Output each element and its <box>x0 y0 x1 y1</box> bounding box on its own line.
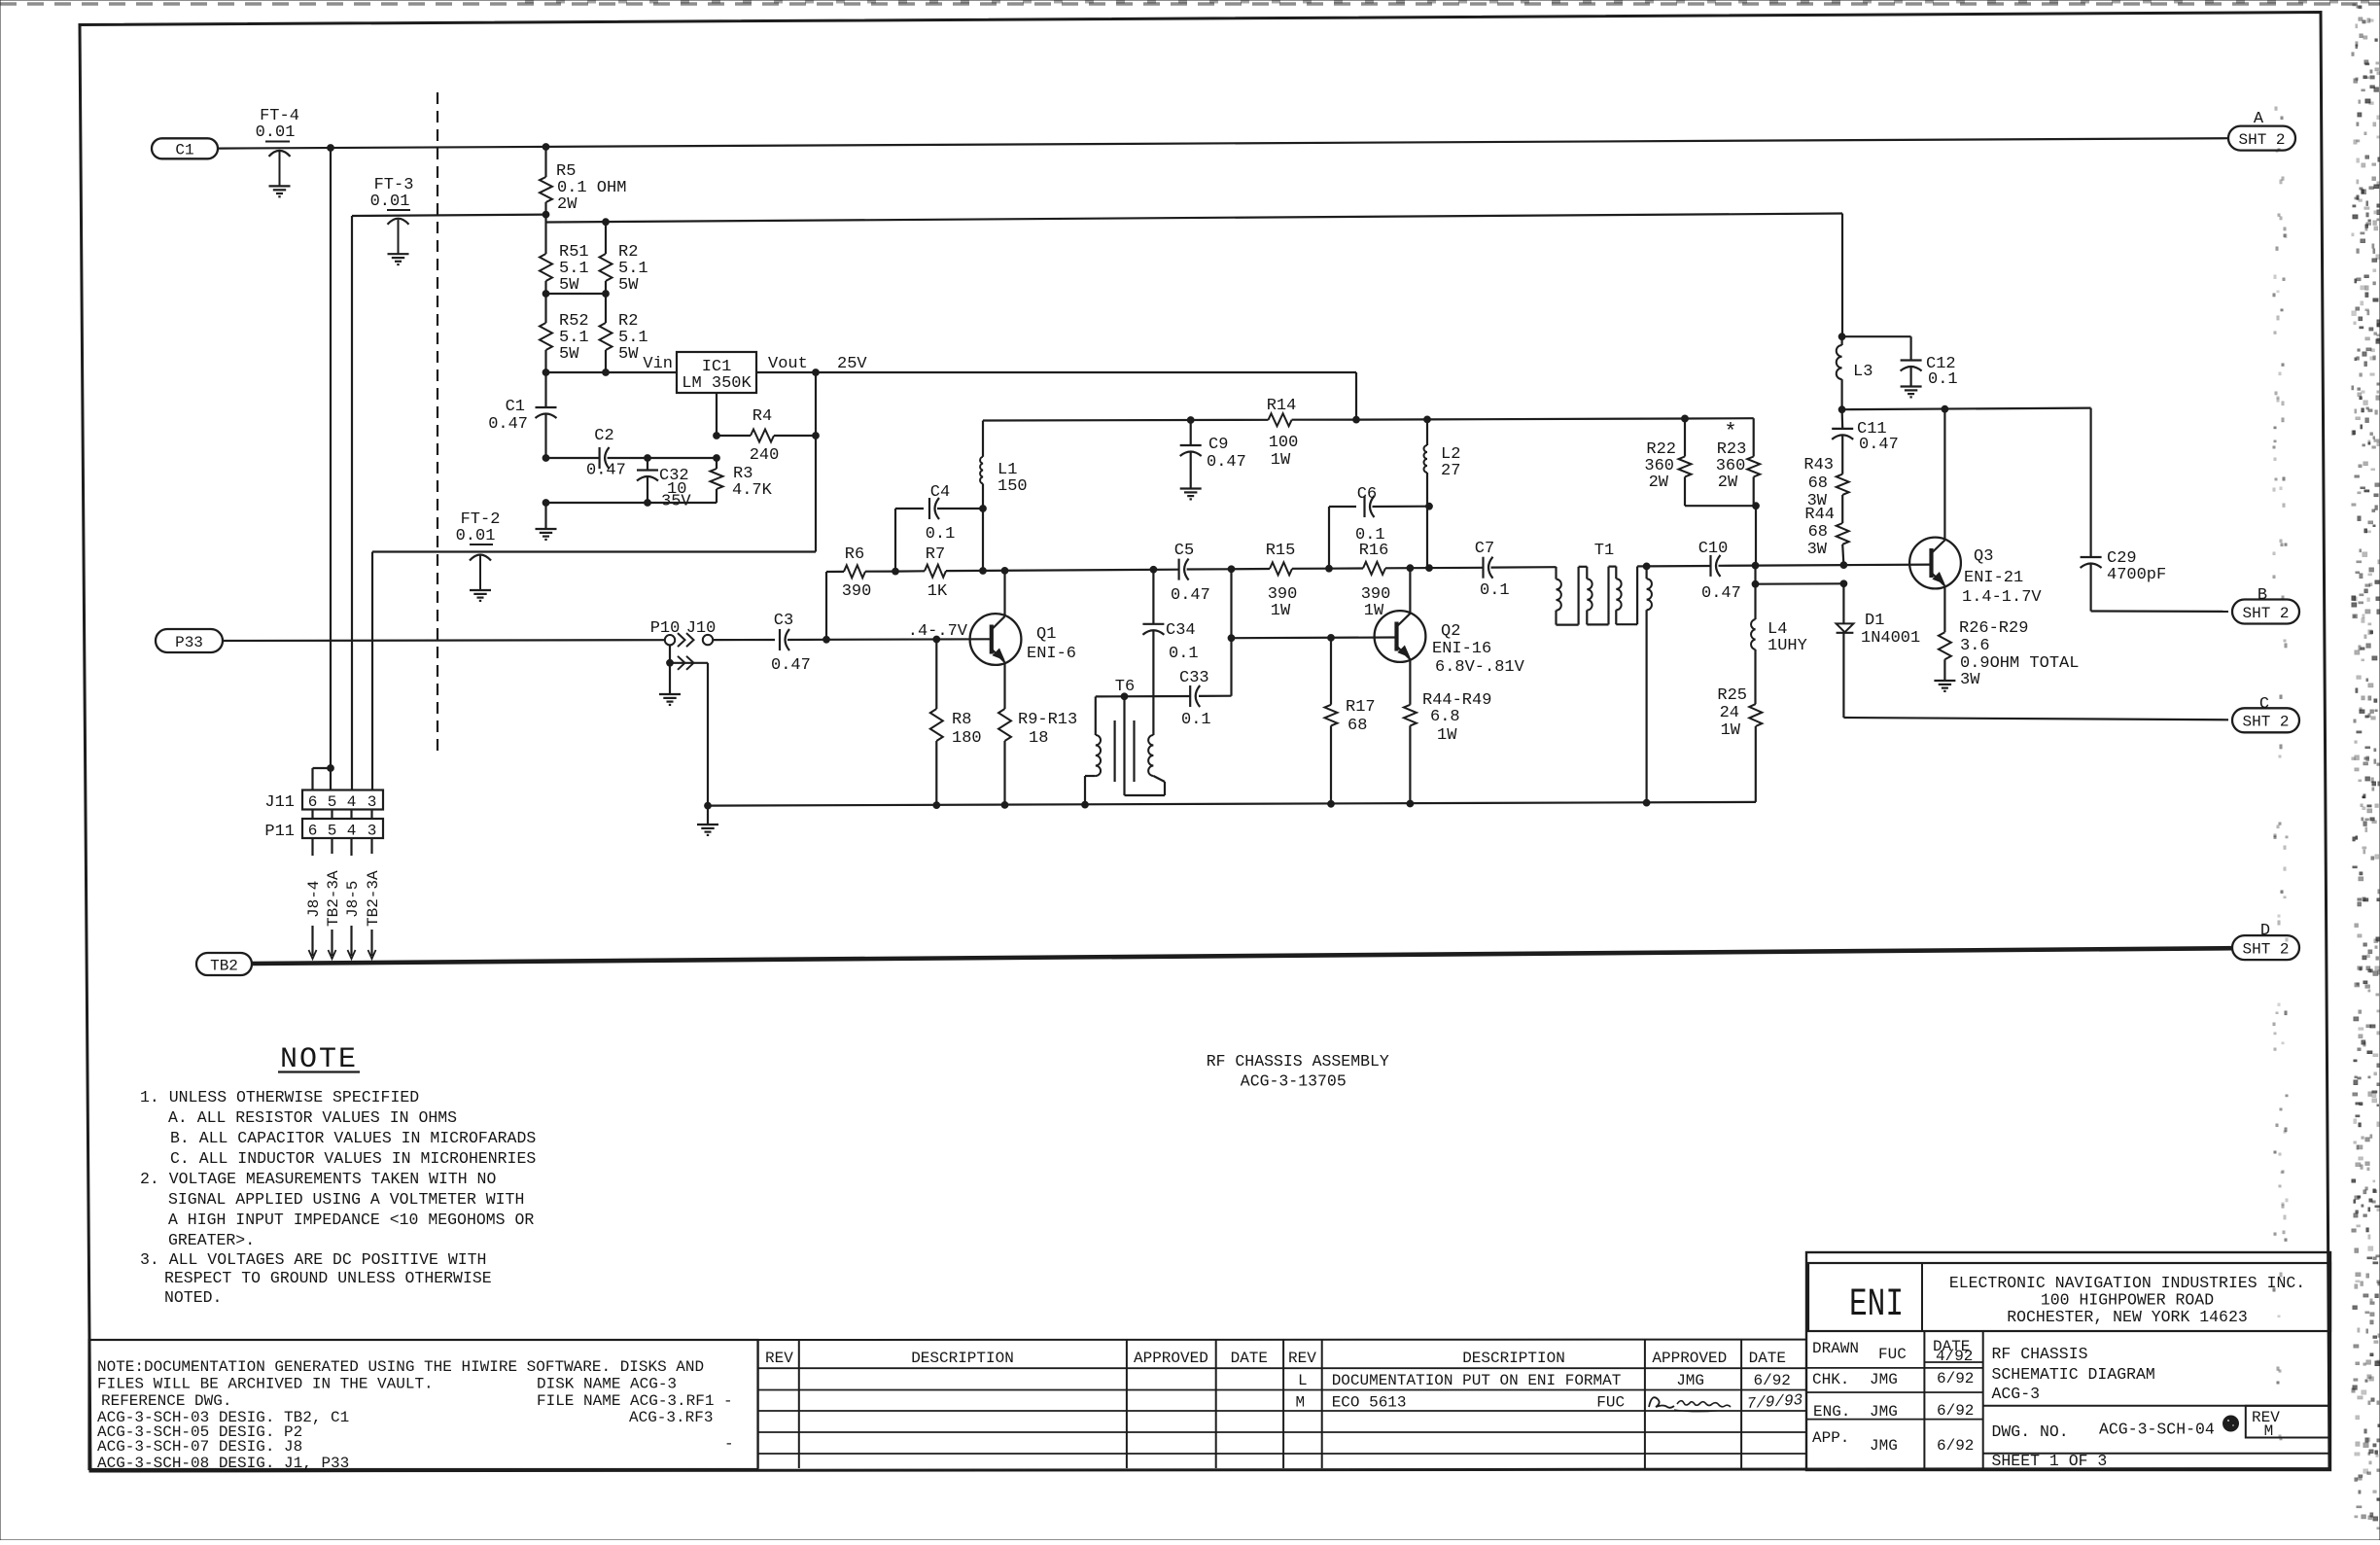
svg-text:6: 6 <box>308 793 318 811</box>
svg-text:P10: P10 <box>650 619 681 638</box>
svg-text:25V: 25V <box>837 355 867 373</box>
svg-text:ACG-3: ACG-3 <box>1992 1385 2041 1403</box>
svg-text:ELECTRONIC NAVIGATION INDUSTRI: ELECTRONIC NAVIGATION INDUSTRIES INC. <box>1949 1274 2305 1292</box>
svg-text:SHT 2: SHT 2 <box>2242 714 2289 731</box>
wire L4/D1 link <box>1752 566 1847 619</box>
wire to sheet B <box>2091 610 2228 613</box>
svg-text:ACG-3.RF3: ACG-3.RF3 <box>629 1409 713 1426</box>
svg-text:FUC: FUC <box>1878 1346 1907 1363</box>
resistor R26-R29 <box>1939 619 2080 689</box>
resistor R4 <box>714 372 820 465</box>
svg-text:0.1: 0.1 <box>926 525 956 544</box>
svg-text:L3: L3 <box>1853 363 1872 381</box>
transformer T1 <box>1557 542 1652 803</box>
svg-text:1W: 1W <box>1271 451 1291 470</box>
svg-text:C10: C10 <box>1698 540 1729 558</box>
svg-text:-: - <box>724 1435 734 1453</box>
svg-text:0.1: 0.1 <box>1181 711 1211 729</box>
resistor R5 <box>540 147 626 218</box>
resistor R8 <box>930 640 982 806</box>
svg-text:0.01: 0.01 <box>370 193 410 211</box>
svg-text:150: 150 <box>997 477 1028 496</box>
svg-text:C33: C33 <box>1179 669 1209 687</box>
svg-text:.4-.7V: .4-.7V <box>908 622 968 641</box>
svg-text:Q3: Q3 <box>1974 547 1993 566</box>
wire L3 bottom line <box>1842 405 2091 556</box>
svg-text:5W: 5W <box>559 345 579 364</box>
wire J10 shield to rail <box>707 663 709 806</box>
ground (rail) <box>697 825 718 835</box>
wire Q3 base <box>1843 563 1931 566</box>
svg-text:JMG: JMG <box>1870 1371 1898 1388</box>
svg-text:6/92: 6/92 <box>1937 1402 1974 1420</box>
wire Vout 25V node <box>756 355 1359 423</box>
connector C1 <box>152 138 218 158</box>
resistor R3 <box>711 458 773 503</box>
svg-text:C4: C4 <box>930 483 950 502</box>
svg-text:5W: 5W <box>618 345 639 364</box>
svg-text:Q1: Q1 <box>1036 625 1056 644</box>
sheet connector C <box>2232 695 2299 732</box>
svg-text:D1: D1 <box>1865 612 1884 630</box>
capacitor C6 <box>1329 485 1432 569</box>
svg-text:1.4-1.7V: 1.4-1.7V <box>1962 588 2042 607</box>
wire emitter ground rail <box>705 799 1756 825</box>
svg-text:0.1: 0.1 <box>1480 581 1510 600</box>
svg-text:1W: 1W <box>1271 602 1291 620</box>
svg-text:R6: R6 <box>845 545 864 564</box>
connector P33 <box>156 629 223 652</box>
svg-text:B. ALL CAPACITOR VALUES IN MIC: B. ALL CAPACITOR VALUES IN MICROFARADS <box>170 1129 536 1147</box>
wire ladder mid link <box>542 291 609 298</box>
svg-text:A: A <box>2254 110 2264 128</box>
svg-text:ACG-3-SCH-07 DESIG. J8: ACG-3-SCH-07 DESIG. J8 <box>97 1438 302 1456</box>
svg-text:6/92: 6/92 <box>1937 1437 1974 1455</box>
svg-text:DISK NAME ACG-3: DISK NAME ACG-3 <box>537 1376 677 1393</box>
inductor L3 <box>1837 336 1873 412</box>
svg-text:18: 18 <box>1029 729 1048 748</box>
svg-text:DOCUMENTATION PUT ON ENI FORMA: DOCUMENTATION PUT ON ENI FORMAT <box>1332 1372 1622 1389</box>
wire TB2 bus (thick) <box>252 948 2232 964</box>
dashed partition line <box>437 92 438 754</box>
svg-text:J8-4: J8-4 <box>305 881 323 918</box>
capacitor C3 <box>771 612 826 675</box>
svg-text:4/92: 4/92 <box>1936 1348 1973 1365</box>
svg-text:JMG: JMG <box>1676 1372 1704 1389</box>
capacitor C11 <box>1832 409 1899 474</box>
resistor R44-R49 <box>1404 691 1492 804</box>
svg-text:5W: 5W <box>559 276 579 295</box>
svg-text:A. ALL RESISTOR VALUES IN OHMS: A. ALL RESISTOR VALUES IN OHMS <box>168 1108 457 1127</box>
svg-text:REFERENCE DWG.: REFERENCE DWG. <box>101 1392 231 1410</box>
svg-text:3W: 3W <box>1807 541 1828 559</box>
resistor R43 <box>1803 456 1848 510</box>
svg-text:240: 240 <box>750 446 780 465</box>
feedthrough capacitor FT-3 <box>370 176 414 264</box>
svg-text:C1: C1 <box>506 398 525 416</box>
svg-text:3: 3 <box>367 823 377 840</box>
svg-text:APP.: APP. <box>1812 1429 1849 1447</box>
wire L3 top node <box>1842 335 1911 337</box>
wire main supply bus (to L3) <box>546 214 1846 340</box>
svg-text:APPROVED: APPROVED <box>1652 1350 1727 1367</box>
svg-text:DWG. NO.: DWG. NO. <box>1992 1422 2069 1441</box>
svg-text:C5: C5 <box>1174 542 1194 560</box>
svg-text:ENI-6: ENI-6 <box>1027 645 1076 663</box>
transistor Q1 <box>970 571 1076 709</box>
svg-text:R8: R8 <box>952 711 971 729</box>
inductor L2 <box>1424 419 1461 568</box>
svg-text:2W: 2W <box>557 195 577 214</box>
svg-text:C. ALL INDUCTOR VALUES IN MICR: C. ALL INDUCTOR VALUES IN MICROHENRIES <box>170 1149 536 1168</box>
connector J11 <box>264 790 383 813</box>
wire bus A <box>218 138 2228 151</box>
ground (regulator) <box>536 529 557 540</box>
svg-text:5: 5 <box>328 793 337 811</box>
svg-text:R26-R29: R26-R29 <box>1959 619 2028 638</box>
regulator IC1 LM350K <box>677 352 756 393</box>
svg-text:0.47: 0.47 <box>488 415 528 434</box>
svg-text:ACG-3-SCH-04: ACG-3-SCH-04 <box>2099 1421 2215 1439</box>
svg-text:NOTED.: NOTED. <box>164 1288 222 1307</box>
wire FT-3 bus <box>352 215 546 790</box>
svg-text:RESPECT TO GROUND UNLESS OTHER: RESPECT TO GROUND UNLESS OTHERWISE <box>164 1269 492 1287</box>
resistor R22 <box>1644 415 1759 509</box>
resistor R23 <box>1716 420 1761 506</box>
wire C1-bus to J11 pins 5/6 <box>313 148 334 790</box>
svg-text:4700pF: 4700pF <box>2107 566 2166 584</box>
svg-text:RF CHASSIS: RF CHASSIS <box>1992 1345 2088 1363</box>
svg-text:P33: P33 <box>175 634 203 651</box>
svg-text:0.01: 0.01 <box>456 527 496 545</box>
sheet connector B <box>2232 586 2299 624</box>
inductor L4 <box>1751 619 1807 704</box>
svg-text:DATE: DATE <box>1231 1350 1268 1367</box>
svg-text:C6: C6 <box>1357 485 1377 504</box>
capacitor C10 <box>1698 540 1756 603</box>
svg-text:6.8V-.81V: 6.8V-.81V <box>1435 658 1525 677</box>
wire P11 pin4 to TB2 + label J8-5 <box>344 838 362 959</box>
revision history table <box>724 1340 1806 1468</box>
wire Vin node <box>542 355 677 375</box>
svg-text:FILE NAME ACG-3.RF1 -: FILE NAME ACG-3.RF1 - <box>537 1392 733 1410</box>
capacitor C9 <box>1180 420 1246 489</box>
svg-text:4.7K: 4.7K <box>732 481 773 500</box>
capacitor C7 <box>1475 540 1557 600</box>
svg-text:C1: C1 <box>175 142 193 159</box>
svg-text:JMG: JMG <box>1870 1437 1898 1455</box>
wire J10 to C3 <box>713 639 775 641</box>
svg-text:1W: 1W <box>1721 721 1741 740</box>
documentation note box <box>89 1340 758 1472</box>
svg-text:0.47: 0.47 <box>771 656 811 675</box>
svg-text:RF CHASSIS ASSEMBLY: RF CHASSIS ASSEMBLY <box>1207 1052 1389 1071</box>
svg-text:4: 4 <box>347 823 357 840</box>
transformer T6 <box>1085 678 1165 805</box>
resistor R2 (lower) <box>600 294 648 372</box>
resistor R51 <box>540 223 589 296</box>
svg-text:J10: J10 <box>686 619 717 638</box>
svg-text:DATE: DATE <box>1749 1350 1786 1367</box>
svg-text:GREATER>.: GREATER>. <box>168 1231 255 1249</box>
svg-text:0.47: 0.47 <box>1207 453 1246 472</box>
svg-text:C2: C2 <box>594 427 613 445</box>
svg-text:2W: 2W <box>1649 474 1669 492</box>
svg-text:6/92: 6/92 <box>1754 1372 1791 1389</box>
svg-text:1. UNLESS OTHERWISE SPECIFIED: 1. UNLESS OTHERWISE SPECIFIED <box>140 1088 419 1106</box>
svg-text:68: 68 <box>1347 717 1367 735</box>
svg-text:0.47: 0.47 <box>586 462 626 480</box>
svg-text:R17: R17 <box>1346 698 1376 717</box>
svg-text:LM 350K: LM 350K <box>682 374 752 393</box>
svg-text:3W: 3W <box>1960 671 1980 689</box>
svg-text:C9: C9 <box>1208 436 1228 454</box>
resistor R14 <box>1267 397 1299 470</box>
svg-text:24: 24 <box>1720 704 1739 722</box>
svg-text:4: 4 <box>347 793 357 811</box>
svg-text:Q2: Q2 <box>1441 622 1460 641</box>
svg-text:J11: J11 <box>264 793 295 812</box>
svg-text:ENI-16: ENI-16 <box>1432 640 1491 658</box>
capacitor C1 (0.47) <box>488 372 556 458</box>
capacitor C32 <box>637 458 691 511</box>
svg-text:TB2-3A: TB2-3A <box>325 870 342 927</box>
connector P11 <box>264 819 383 841</box>
resistor R25 <box>1717 686 1762 802</box>
resistor R2 (upper) <box>600 222 648 295</box>
resistor R6 <box>826 545 895 640</box>
wire Q1 base node <box>823 622 992 643</box>
svg-text:M: M <box>2264 1422 2274 1440</box>
svg-text:R14: R14 <box>1267 397 1297 415</box>
svg-text:FUC: FUC <box>1596 1394 1625 1412</box>
svg-text:R15: R15 <box>1266 542 1296 560</box>
svg-text:B: B <box>2257 586 2267 605</box>
caption RF CHASSIS ASSEMBLY <box>1207 1052 1389 1091</box>
svg-text:T6: T6 <box>1115 678 1135 696</box>
resistor R17 <box>1325 638 1376 804</box>
wire L1 feed bus <box>983 415 1754 456</box>
svg-text:APPROVED: APPROVED <box>1134 1350 1208 1367</box>
svg-text:ROCHESTER, NEW YORK 14623: ROCHESTER, NEW YORK 14623 <box>2007 1308 2248 1326</box>
svg-text:C: C <box>2259 695 2269 714</box>
connector TB2 <box>196 953 252 975</box>
svg-text:ECO 5613: ECO 5613 <box>1332 1394 1407 1412</box>
wire ground rail of regulator <box>542 500 717 529</box>
svg-text:6/92: 6/92 <box>1937 1370 1974 1387</box>
svg-text:2. VOLTAGE MEASUREMENTS TAKEN: 2. VOLTAGE MEASUREMENTS TAKEN WITH NO <box>140 1170 496 1188</box>
svg-text:SCHEMATIC DIAGRAM: SCHEMATIC DIAGRAM <box>1992 1365 2155 1384</box>
ground (P10) <box>659 694 681 705</box>
svg-text:SHT 2: SHT 2 <box>2242 605 2289 622</box>
svg-text:6.8: 6.8 <box>1430 708 1460 726</box>
feedthrough capacitor FT-2 <box>456 510 501 601</box>
svg-text:SHEET 1 OF 3: SHEET 1 OF 3 <box>1992 1452 2108 1470</box>
wire P11 pin5 to TB2 + label TB2-3A <box>325 838 342 959</box>
svg-text:1W: 1W <box>1437 726 1457 745</box>
resistor R7 <box>895 545 1179 601</box>
svg-text:Vout: Vout <box>768 355 808 373</box>
svg-text:1UHY: 1UHY <box>1767 637 1807 655</box>
svg-text:L: L <box>1298 1372 1308 1389</box>
svg-text:R44: R44 <box>1804 506 1835 524</box>
wire C5 junction to Q2 base / C33 <box>1230 569 1232 695</box>
svg-text:M: M <box>1296 1394 1306 1412</box>
svg-text:R7: R7 <box>926 545 945 564</box>
svg-text:ACG-3-SCH-08 DESIG. J1, P33: ACG-3-SCH-08 DESIG. J1, P33 <box>97 1455 349 1472</box>
svg-text:3. ALL VOLTAGES ARE DC POSITIV: 3. ALL VOLTAGES ARE DC POSITIVE WITH <box>140 1250 486 1269</box>
resistor R9-R13 <box>998 709 1077 805</box>
svg-text:TB2: TB2 <box>210 957 238 974</box>
wire P11 pin6 to TB2 + label J8-4 <box>305 838 323 959</box>
svg-text:0.1: 0.1 <box>1355 526 1385 544</box>
svg-text:ENI: ENI <box>1849 1283 1904 1327</box>
svg-text:0.47: 0.47 <box>1701 584 1741 603</box>
svg-text:100: 100 <box>1269 434 1299 452</box>
svg-text:SIGNAL APPLIED USING A VOLTMET: SIGNAL APPLIED USING A VOLTMETER WITH <box>168 1190 524 1209</box>
resistor R16 <box>1329 542 1484 620</box>
transistor Q2 <box>1375 568 1525 705</box>
capacitor C2 <box>586 427 626 480</box>
svg-text:P11: P11 <box>264 823 295 841</box>
svg-text:68: 68 <box>1808 523 1828 542</box>
svg-text:TB2-3A: TB2-3A <box>365 870 382 927</box>
connector P10/J10 <box>650 619 717 694</box>
svg-text:3: 3 <box>367 793 377 811</box>
wire FT-2 bus <box>372 436 816 790</box>
svg-text:68: 68 <box>1808 474 1828 493</box>
svg-text:2W: 2W <box>1718 474 1738 492</box>
capacitor C12 <box>1901 336 1958 389</box>
sheet connector D <box>2232 922 2299 960</box>
inductor L1 <box>980 421 1028 572</box>
svg-text:T1: T1 <box>1594 542 1614 560</box>
svg-text:NOTE:DOCUMENTATION GENERATED U: NOTE:DOCUMENTATION GENERATED USING THE H… <box>97 1358 704 1376</box>
ground (C12) <box>1901 387 1922 398</box>
diode D1 1N4001 <box>1837 583 1921 718</box>
capacitor C34 <box>1142 570 1198 735</box>
svg-text:ACG-3-13705: ACG-3-13705 <box>1241 1072 1347 1091</box>
svg-text:0.47: 0.47 <box>1859 436 1899 454</box>
resistor R15 <box>1232 542 1333 620</box>
svg-text:R9-R13: R9-R13 <box>1018 711 1077 729</box>
svg-text:C3: C3 <box>774 612 793 630</box>
wire Q2 base node <box>1228 635 1396 642</box>
svg-text:1N4001: 1N4001 <box>1861 629 1920 648</box>
wire P33 to P10 <box>223 639 665 642</box>
svg-text:Vin: Vin <box>643 355 673 373</box>
wire to sheet C <box>1843 718 2228 720</box>
svg-text:0.01: 0.01 <box>256 123 296 142</box>
svg-text:REV: REV <box>765 1350 793 1367</box>
svg-text:390: 390 <box>842 582 872 601</box>
wire T1 to C10 <box>1647 565 1711 568</box>
svg-text:ENI-21: ENI-21 <box>1964 569 2023 587</box>
svg-text:3.6: 3.6 <box>1960 637 1990 655</box>
svg-text:DESCRIPTION: DESCRIPTION <box>1462 1350 1565 1367</box>
ground (C9) <box>1180 489 1202 500</box>
transistor Q3 <box>1909 409 2042 633</box>
ground (R26-R29) <box>1934 681 1955 691</box>
svg-text:6: 6 <box>308 823 318 840</box>
wire C2 node <box>542 455 719 462</box>
svg-text:0.1: 0.1 <box>1169 645 1199 663</box>
capacitor C29 <box>2081 549 2167 612</box>
svg-text:CHK.: CHK. <box>1812 1371 1849 1388</box>
capacitor C33 <box>1096 669 1232 729</box>
svg-text:R25: R25 <box>1717 686 1747 705</box>
svg-text:J8-5: J8-5 <box>344 881 362 918</box>
sheet connector A <box>2228 110 2295 151</box>
svg-text:27: 27 <box>1441 462 1460 480</box>
capacitor C5 <box>1171 542 1235 605</box>
svg-text:R43: R43 <box>1803 456 1834 474</box>
svg-text:A HIGH INPUT IMPEDANCE <10 MEG: A HIGH INPUT IMPEDANCE <10 MEGOHOMS OR <box>168 1211 534 1229</box>
wire P11 pin3 to TB2 + label TB2-3A <box>365 838 382 959</box>
svg-text:JMG: JMG <box>1870 1403 1898 1421</box>
svg-text:5: 5 <box>328 823 337 840</box>
wire R23 node to C10 node <box>1752 506 1847 569</box>
capacitor C4 <box>892 483 983 575</box>
svg-text:SHT 2: SHT 2 <box>2242 940 2289 958</box>
svg-text:REV: REV <box>1288 1350 1316 1367</box>
svg-text:R4: R4 <box>752 407 772 426</box>
title block <box>1806 1252 2330 1470</box>
svg-text:1K: 1K <box>927 582 948 601</box>
feedthrough capacitor FT-4 <box>256 107 299 196</box>
svg-text:DRAWN: DRAWN <box>1812 1340 1859 1357</box>
svg-text:ENG.: ENG. <box>1813 1403 1850 1421</box>
svg-text:0.1: 0.1 <box>1928 370 1958 389</box>
svg-text:C7: C7 <box>1475 540 1494 558</box>
svg-text:5W: 5W <box>618 276 639 295</box>
svg-text:100 HIGHPOWER ROAD: 100 HIGHPOWER ROAD <box>2041 1291 2214 1310</box>
svg-text:FILES WILL BE ARCHIVED IN THE: FILES WILL BE ARCHIVED IN THE VAULT. <box>97 1376 434 1393</box>
resistor R44 <box>1804 495 1848 565</box>
svg-text:SHT 2: SHT 2 <box>2238 131 2285 149</box>
wire J11-P11 stubs <box>313 810 372 820</box>
svg-text:0.47: 0.47 <box>1171 586 1210 605</box>
svg-text:C34: C34 <box>1166 621 1196 640</box>
svg-text:180: 180 <box>952 729 982 748</box>
notes text block <box>140 1043 536 1307</box>
svg-text:DESCRIPTION: DESCRIPTION <box>911 1350 1014 1367</box>
svg-text:D: D <box>2260 922 2270 940</box>
resistor R52 <box>540 294 589 372</box>
